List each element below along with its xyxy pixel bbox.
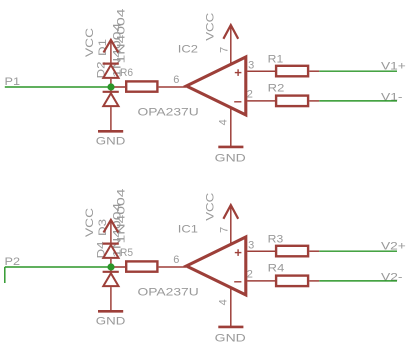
- op-amp plus marking: [235, 72, 242, 74]
- wire pin 3 to R3: [247, 250, 276, 252]
- diode D4 triangle: [103, 273, 118, 286]
- wire anode D3 to junction: [110, 259, 112, 267]
- diode D3 triangle: [103, 245, 118, 258]
- svg-text:6: 6: [173, 74, 179, 86]
- svg-text:GND: GND: [96, 315, 126, 327]
- svg-text:VCC: VCC: [84, 28, 96, 57]
- svg-text:IC2: IC2: [178, 44, 198, 56]
- wire net P2 vertical stub: [4, 267, 6, 283]
- svg-text:R4: R4: [268, 262, 285, 274]
- power VCC symbol above D1: [110, 40, 112, 63]
- ground symbol (diode stack): [98, 310, 123, 313]
- diode D2 cathode bar: [103, 91, 119, 93]
- op-amp minus marking: [234, 101, 241, 103]
- wire net P2 horizontal: [5, 266, 111, 268]
- wire R3 to net: [309, 250, 319, 252]
- wire pin 4 to ground: [230, 108, 232, 147]
- svg-text:R6: R6: [120, 67, 133, 79]
- wire R5 to op-amp pin 6: [159, 266, 186, 268]
- node junction dot on net P2: [107, 263, 114, 270]
- svg-text:R1: R1: [268, 54, 284, 66]
- svg-text:7: 7: [219, 227, 231, 233]
- wire R4 to net: [309, 280, 319, 282]
- op-amp IC1 OPA237U triangle (mirrored, output left): [186, 237, 245, 295]
- wire pin 2 to R2: [247, 100, 276, 102]
- node junction dot on net P1: [107, 83, 114, 90]
- wire junction to cathode D4: [110, 267, 112, 272]
- power VCC symbol above D3: [110, 220, 112, 243]
- svg-text:R2: R2: [268, 82, 285, 94]
- wire junction to R6: [111, 86, 126, 88]
- diode D4 cathode bar: [103, 271, 119, 273]
- resistor R2: [276, 96, 308, 107]
- svg-text:4: 4: [218, 119, 230, 125]
- op-amp minus marking: [234, 281, 241, 283]
- wire net V1+: [319, 70, 397, 72]
- svg-text:R3: R3: [268, 234, 284, 246]
- svg-text:IC1: IC1: [178, 224, 198, 236]
- resistor R6: [126, 81, 157, 91]
- ground symbol (op-amp): [218, 326, 243, 329]
- svg-text:VCC: VCC: [205, 13, 217, 41]
- svg-text:2: 2: [247, 269, 253, 281]
- power VCC symbol at pin 7: [230, 205, 232, 244]
- op-amp IC2 OPA237U triangle (mirrored, output left): [186, 57, 245, 115]
- svg-text:6: 6: [173, 254, 179, 266]
- svg-text:4: 4: [218, 299, 230, 305]
- diode D3 cathode bar: [103, 243, 119, 245]
- svg-text:P1: P1: [5, 76, 21, 88]
- wire pin 2 to R4: [247, 280, 276, 282]
- wire R1 to net: [309, 70, 319, 72]
- ground symbol (diode stack): [98, 130, 123, 133]
- wire anode D2 to ground: [110, 107, 112, 131]
- svg-text:GND: GND: [215, 153, 246, 165]
- wire R2 to net: [309, 100, 319, 102]
- op-amp plus marking: [235, 252, 242, 254]
- wire anode D4 to ground: [110, 287, 112, 311]
- svg-text:OPA237U: OPA237U: [138, 107, 199, 119]
- diode D1 triangle: [103, 65, 118, 78]
- wire junction to R5: [111, 266, 126, 268]
- svg-text:3: 3: [248, 60, 254, 72]
- resistor R5: [126, 261, 157, 271]
- svg-text:R5: R5: [120, 247, 133, 259]
- power VCC symbol at pin 7: [230, 25, 232, 64]
- svg-text:GND: GND: [215, 333, 246, 345]
- wire R6 to op-amp pin 6: [159, 86, 186, 88]
- wire net V2+: [319, 250, 397, 252]
- wire anode D1 to junction: [110, 79, 112, 87]
- wire net V2-: [319, 280, 397, 282]
- svg-text:VCC: VCC: [84, 208, 96, 237]
- wire pin 3 to R1: [247, 70, 276, 72]
- svg-text:7: 7: [219, 47, 231, 53]
- wire net V1-: [319, 100, 397, 102]
- resistor R1: [276, 66, 308, 77]
- wire net P1 horizontal: [5, 86, 111, 88]
- svg-text:VCC: VCC: [205, 193, 217, 221]
- diode D1 cathode bar: [103, 62, 119, 64]
- svg-text:3: 3: [248, 240, 254, 252]
- svg-text:P2: P2: [5, 256, 21, 268]
- wire junction to cathode D2: [110, 87, 112, 92]
- wire pin 4 to ground: [230, 288, 232, 327]
- resistor R3: [276, 246, 308, 256]
- resistor R4: [276, 276, 308, 287]
- ground symbol (op-amp): [218, 146, 243, 149]
- svg-text:2: 2: [247, 89, 253, 101]
- diode D2 triangle: [103, 93, 118, 106]
- svg-text:GND: GND: [96, 135, 126, 147]
- svg-text:OPA237U: OPA237U: [138, 287, 199, 299]
